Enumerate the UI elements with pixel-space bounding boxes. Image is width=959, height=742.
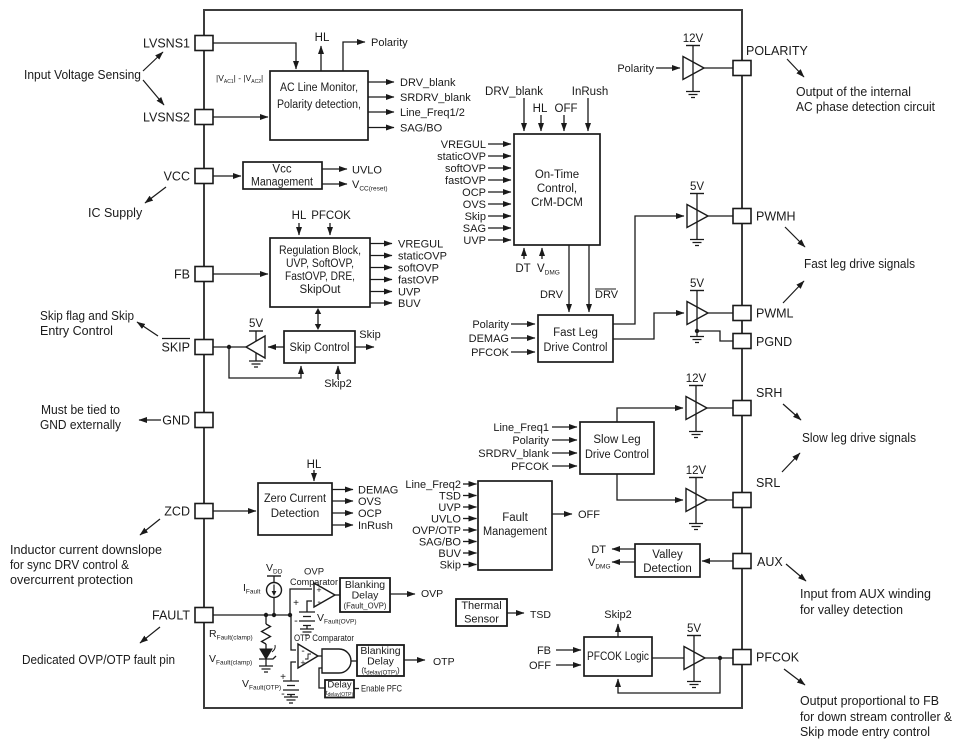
svg-text:OTP Comparator: OTP Comparator: [294, 633, 354, 644]
svg-text:PFCOK: PFCOK: [511, 461, 550, 473]
svg-text:Skip: Skip: [440, 560, 461, 572]
svg-text:Control,: Control,: [537, 183, 577, 195]
svg-text:FastOVP, DRE,: FastOVP, DRE,: [285, 271, 355, 283]
svg-text:Detection: Detection: [271, 508, 320, 520]
svg-text:FB: FB: [174, 268, 190, 282]
svg-text:IC Supply: IC Supply: [88, 206, 143, 220]
svg-text:VREGUL: VREGUL: [398, 239, 443, 251]
svg-text:POLARITY: POLARITY: [746, 44, 808, 58]
svg-text:Fault: Fault: [502, 512, 528, 524]
svg-text:Input from AUX winding: Input from AUX winding: [800, 587, 931, 601]
svg-text:SRH: SRH: [756, 386, 782, 400]
svg-text:BUV: BUV: [438, 548, 461, 560]
svg-text:Valley: Valley: [652, 549, 683, 561]
svg-text:OCP: OCP: [462, 187, 486, 199]
svg-text:Skip: Skip: [465, 211, 486, 223]
svg-text:HL: HL: [307, 459, 322, 471]
svg-text:for sync DRV control &: for sync DRV control &: [10, 558, 130, 572]
svg-text:Sensor: Sensor: [464, 614, 499, 626]
svg-text:-: -: [301, 646, 304, 657]
svg-text:Zero Current: Zero Current: [264, 493, 327, 505]
svg-text:HL: HL: [292, 210, 307, 222]
svg-text:Dedicated OVP/OTP fault pin: Dedicated OVP/OTP fault pin: [22, 653, 175, 667]
svg-text:Polarity: Polarity: [472, 319, 509, 331]
svg-text:overcurrent protection: overcurrent protection: [10, 573, 133, 587]
svg-text:DT: DT: [591, 544, 606, 556]
svg-text:Thermal: Thermal: [461, 600, 501, 612]
svg-text:Fast leg drive signals: Fast leg drive signals: [804, 257, 915, 271]
svg-text:Comparator: Comparator: [290, 577, 338, 588]
svg-text:InRush: InRush: [572, 86, 608, 98]
svg-text:SKIP: SKIP: [162, 341, 191, 355]
svg-text:GND: GND: [162, 414, 190, 428]
svg-text:ZCD: ZCD: [164, 505, 190, 519]
svg-text:Polarity: Polarity: [512, 435, 549, 447]
svg-text:staticOVP: staticOVP: [398, 251, 447, 263]
svg-text:AUX: AUX: [757, 555, 783, 569]
svg-text:5V: 5V: [690, 181, 704, 193]
svg-text:Polarity: Polarity: [617, 63, 654, 75]
svg-text:CrM-DCM: CrM-DCM: [531, 197, 583, 209]
svg-text:OVS: OVS: [358, 496, 381, 508]
svg-text:OFF: OFF: [529, 660, 551, 672]
svg-text:GND externally: GND externally: [40, 418, 122, 432]
svg-text:OFF: OFF: [555, 103, 578, 115]
svg-text:OVS: OVS: [463, 199, 486, 211]
svg-text:DEMAG: DEMAG: [469, 333, 509, 345]
svg-text:Delay: Delay: [367, 656, 395, 668]
svg-text:OCP: OCP: [358, 508, 382, 520]
svg-text:DT: DT: [515, 263, 530, 275]
svg-text:PFCOK: PFCOK: [471, 347, 510, 359]
svg-text:Management: Management: [251, 177, 314, 189]
svg-text:UVP: UVP: [463, 235, 486, 247]
svg-text:SRL: SRL: [756, 476, 780, 490]
svg-text:Polarity detection,: Polarity detection,: [277, 99, 361, 111]
svg-text:SRDRV_blank: SRDRV_blank: [400, 92, 471, 104]
svg-text:FB: FB: [537, 645, 551, 657]
svg-text:Slow Leg: Slow Leg: [593, 434, 640, 446]
svg-text:fastOVP: fastOVP: [445, 175, 486, 187]
svg-text:SAG: SAG: [463, 223, 486, 235]
svg-text:12V: 12V: [683, 33, 704, 45]
svg-text:UVP: UVP: [398, 287, 421, 299]
svg-text:tdelay(OTP): tdelay(OTP): [326, 690, 354, 698]
svg-text:VREGUL: VREGUL: [441, 139, 486, 151]
svg-text:Regulation Block,: Regulation Block,: [279, 245, 361, 257]
svg-text:staticOVP: staticOVP: [437, 151, 486, 163]
svg-text:UVLO: UVLO: [352, 165, 382, 177]
svg-text:for valley detection: for valley detection: [800, 603, 903, 617]
svg-text:DRV: DRV: [595, 289, 619, 301]
svg-text:5V: 5V: [249, 318, 263, 330]
svg-text:On-Time: On-Time: [535, 169, 579, 181]
svg-text:Skip Control: Skip Control: [290, 342, 350, 354]
svg-text:UVP: UVP: [438, 502, 461, 514]
svg-text:OFF: OFF: [578, 509, 600, 521]
svg-text:VCC: VCC: [164, 170, 190, 184]
svg-text:Drive Control: Drive Control: [544, 342, 608, 354]
svg-text:LVSNS1: LVSNS1: [143, 37, 190, 51]
svg-text:Entry Control: Entry Control: [40, 324, 113, 338]
svg-text:SRDRV_blank: SRDRV_blank: [478, 448, 549, 460]
svg-text:Skip2: Skip2: [604, 609, 632, 621]
svg-text:UVLO: UVLO: [431, 514, 461, 526]
svg-text:OTP: OTP: [433, 656, 455, 668]
svg-text:Management: Management: [483, 526, 548, 538]
svg-text:softOVP: softOVP: [445, 163, 486, 175]
svg-text:SkipOut: SkipOut: [300, 284, 342, 296]
svg-text:AC phase detection circuit: AC phase detection circuit: [796, 100, 936, 114]
svg-text:fastOVP: fastOVP: [398, 275, 439, 287]
svg-text:TSD: TSD: [439, 491, 461, 503]
svg-text:Line_Freq1: Line_Freq1: [493, 422, 549, 434]
svg-text:Skip mode entry control: Skip mode entry control: [800, 725, 930, 739]
svg-text:Skip: Skip: [359, 329, 380, 341]
svg-text:Vcc: Vcc: [272, 164, 291, 176]
svg-text:DRV_blank: DRV_blank: [485, 86, 543, 98]
svg-text:TSD: TSD: [530, 609, 551, 621]
svg-text:DEMAG: DEMAG: [358, 485, 398, 497]
svg-text:AC Line Monitor,: AC Line Monitor,: [280, 82, 358, 94]
svg-text:SAG/BO: SAG/BO: [400, 123, 443, 135]
svg-text:HL: HL: [533, 103, 548, 115]
svg-text:Delay: Delay: [327, 680, 352, 691]
svg-text:InRush: InRush: [358, 520, 393, 532]
svg-text:SAG/BO: SAG/BO: [419, 537, 462, 549]
svg-text:Input Voltage Sensing: Input Voltage Sensing: [24, 68, 141, 82]
svg-text:PWML: PWML: [756, 307, 794, 321]
svg-text:Skip flag and Skip: Skip flag and Skip: [40, 309, 134, 323]
svg-text:LVSNS2: LVSNS2: [143, 111, 190, 125]
svg-text:Fast Leg: Fast Leg: [553, 327, 598, 339]
svg-text:PFCOK Logic: PFCOK Logic: [587, 651, 649, 663]
svg-text:12V: 12V: [686, 373, 707, 385]
svg-text:BUV: BUV: [398, 298, 421, 310]
svg-text:Must be tied to: Must be tied to: [41, 403, 120, 417]
svg-text:Line_Freq1/2: Line_Freq1/2: [400, 107, 465, 119]
svg-text:Skip2: Skip2: [324, 378, 352, 390]
svg-text:Enable PFC: Enable PFC: [361, 684, 402, 695]
svg-text:Detection: Detection: [643, 563, 692, 575]
svg-text:PFCOK: PFCOK: [311, 210, 351, 222]
svg-text:5V: 5V: [687, 623, 701, 635]
svg-text:5V: 5V: [690, 278, 704, 290]
svg-text:+: +: [300, 658, 305, 668]
svg-text:+: +: [280, 672, 286, 683]
svg-text:-: -: [317, 597, 320, 608]
svg-text:PWMH: PWMH: [756, 210, 796, 224]
svg-text:Inductor current downslope: Inductor current downslope: [10, 543, 162, 557]
svg-text:Line_Freq2: Line_Freq2: [405, 479, 461, 491]
svg-text:OVP/OTP: OVP/OTP: [412, 525, 461, 537]
svg-text:12V: 12V: [686, 465, 707, 477]
svg-text:FAULT: FAULT: [152, 609, 190, 623]
svg-text:(Fault_OVP): (Fault_OVP): [344, 601, 387, 611]
svg-text:softOVP: softOVP: [398, 263, 439, 275]
svg-text:-: -: [281, 688, 285, 700]
svg-text:for down stream controller &: for down stream controller &: [800, 710, 953, 724]
svg-text:+: +: [293, 598, 299, 609]
svg-text:PGND: PGND: [756, 335, 792, 349]
svg-text:Output proportional to FB: Output proportional to FB: [800, 694, 939, 708]
svg-text:UVP, SoftOVP,: UVP, SoftOVP,: [286, 258, 354, 270]
svg-text:Slow leg drive signals: Slow leg drive signals: [802, 431, 916, 445]
svg-text:Polarity: Polarity: [371, 37, 408, 49]
svg-text:PFCOK: PFCOK: [756, 651, 800, 665]
svg-text:OVP: OVP: [304, 567, 324, 578]
svg-text:OVP: OVP: [421, 588, 443, 600]
svg-text:HL: HL: [315, 32, 330, 44]
svg-text:-: -: [294, 615, 298, 627]
svg-text:DRV_blank: DRV_blank: [400, 77, 456, 89]
svg-text:DRV: DRV: [540, 289, 564, 301]
svg-text:Drive Control: Drive Control: [585, 449, 649, 461]
svg-text:Output of the internal: Output of the internal: [796, 85, 911, 99]
